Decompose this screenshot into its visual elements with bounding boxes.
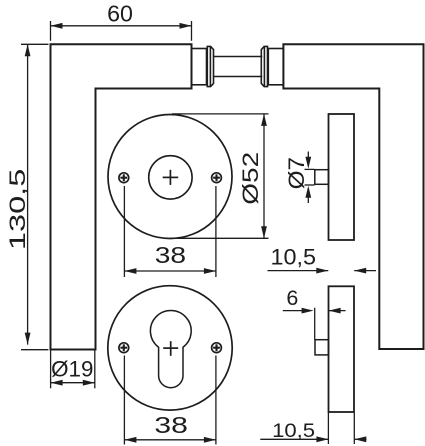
svg-text:130,5: 130,5: [5, 169, 30, 251]
svg-text:Ø7: Ø7: [284, 157, 309, 189]
svg-text:38: 38: [154, 412, 188, 438]
svg-text:Ø52: Ø52: [238, 152, 263, 205]
svg-text:6: 6: [286, 286, 298, 310]
svg-text:10,5: 10,5: [271, 244, 317, 269]
svg-text:38: 38: [155, 242, 186, 268]
svg-text:10,5: 10,5: [272, 420, 315, 442]
svg-text:Ø19: Ø19: [51, 357, 93, 382]
svg-text:60: 60: [107, 0, 133, 26]
